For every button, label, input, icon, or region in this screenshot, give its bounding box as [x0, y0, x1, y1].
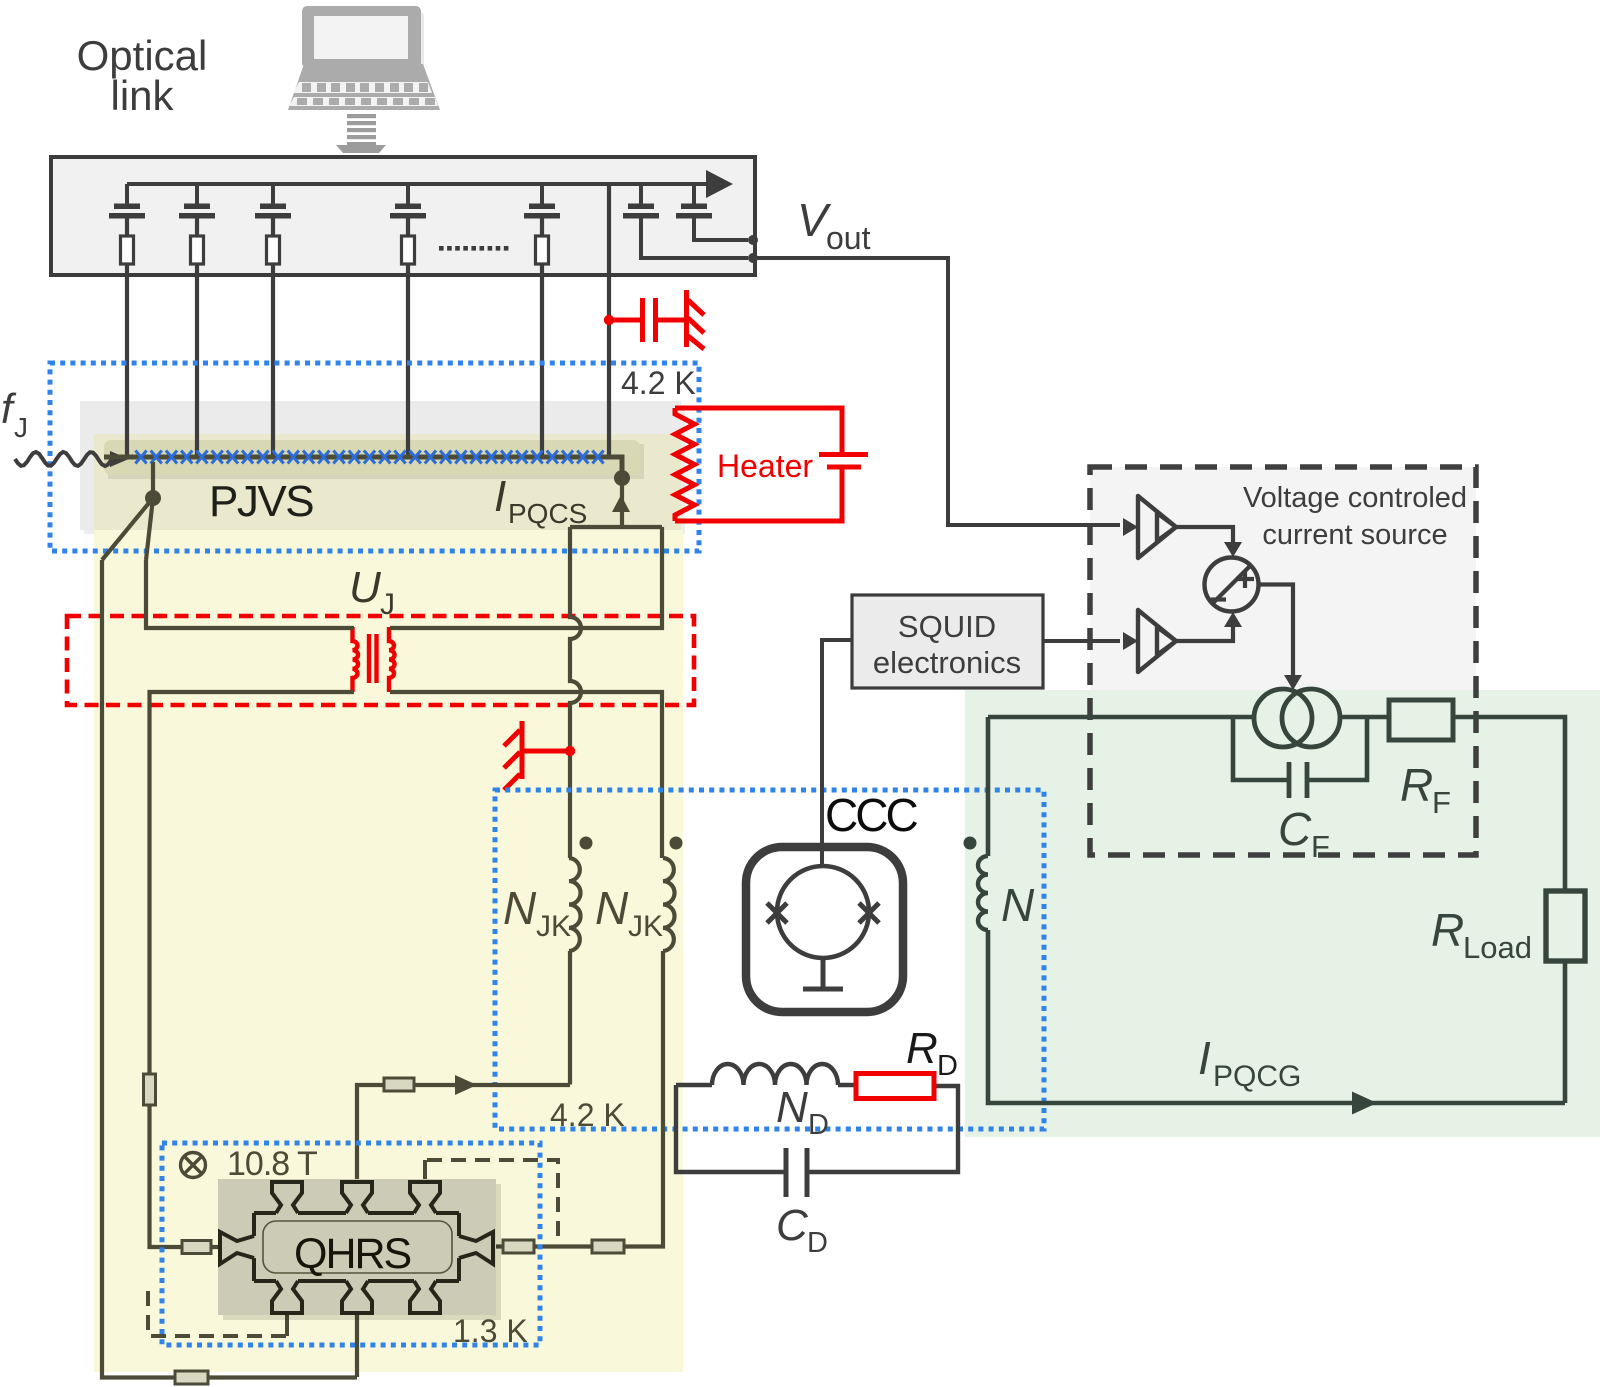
PJVS junction array line	[104, 457, 622, 471]
bus arrow	[706, 170, 733, 198]
svg-text:N: N	[776, 1083, 808, 1132]
svg-text:D: D	[807, 1227, 828, 1259]
heater bottom wire	[675, 469, 842, 521]
N winding wire from current source	[986, 717, 991, 856]
magnetic field symbol	[181, 1153, 206, 1178]
svg-text:F: F	[1432, 785, 1451, 820]
junction X right	[859, 903, 879, 923]
SQUID ground stem	[803, 958, 843, 989]
output cell column 2	[692, 184, 696, 236]
heater top wire	[675, 408, 842, 452]
current source symbol	[1254, 689, 1312, 747]
CCC toroid shield	[746, 847, 903, 1012]
svg-text:D: D	[808, 1109, 829, 1141]
svg-text:CCC: CCC	[825, 789, 917, 841]
svg-text:JK: JK	[536, 910, 571, 943]
svg-text:I: I	[1198, 1032, 1211, 1084]
SQUID to amplifier wire	[1043, 639, 1120, 643]
bias source column x=197	[195, 184, 199, 236]
I_PQCS direction arrow up	[612, 495, 630, 512]
series resistor on bottom return wire	[175, 1371, 208, 1384]
laptop computer icon	[288, 6, 440, 110]
series resistor on left QHRS lead horizontal	[182, 1241, 211, 1254]
PJVS left outer wire to QHRS bottom	[102, 560, 357, 1378]
svg-text:10.8 T: 10.8 T	[227, 1145, 317, 1183]
bias source column x=127	[125, 184, 129, 236]
svg-text:I: I	[494, 472, 506, 521]
4.2 K cryostat dotted box	[50, 363, 699, 551]
ellipsis dots in bias box	[439, 246, 444, 251]
summing junction	[1205, 558, 1259, 612]
svg-text:F: F	[1311, 829, 1330, 864]
R_F resistor	[1389, 700, 1453, 740]
svg-text:out: out	[826, 220, 871, 256]
primary top wire from PJVS left	[146, 560, 354, 628]
output node B	[748, 253, 758, 263]
svg-text:N: N	[595, 882, 629, 934]
SQUID loop circle	[777, 866, 869, 958]
QHRS chip	[218, 1179, 496, 1315]
ground tap red on loop wire	[504, 721, 570, 790]
bias bus wire	[127, 182, 706, 186]
heater resistor coil	[675, 408, 695, 521]
svg-text:D: D	[937, 1050, 958, 1082]
secondary top wire	[390, 527, 662, 628]
svg-text:Heater: Heater	[717, 448, 813, 484]
svg-text:4.2 K: 4.2 K	[621, 365, 696, 401]
summing junction to current source wire	[1259, 585, 1294, 679]
PJVS left terminal node	[102, 462, 153, 560]
1.3 K dotted box	[162, 1143, 540, 1345]
I_PQCG output wire	[988, 930, 1565, 1103]
svg-text:R: R	[906, 1024, 938, 1073]
SQUID electronics box	[852, 595, 1043, 688]
buffer amplifier U2	[1123, 632, 1138, 650]
heater capacitor	[819, 455, 868, 468]
gray band behind PJVS	[84, 405, 685, 534]
output wire left	[988, 715, 1254, 720]
sense wire column x=609	[607, 184, 611, 457]
series resistor on left QHRS lead vertical	[144, 1074, 156, 1105]
svg-text:R: R	[1400, 759, 1433, 811]
svg-text:4.2 K: 4.2 K	[550, 1097, 625, 1133]
filter capacitor plates	[643, 298, 656, 342]
Hall bar inner channel	[263, 1221, 452, 1273]
svg-text:U: U	[349, 563, 381, 612]
svg-text:JK: JK	[628, 910, 663, 943]
output cell column 1	[639, 184, 643, 236]
I_PQCS left loop wire with hops	[570, 527, 581, 858]
transformer primary winding	[353, 627, 359, 692]
svg-text:C: C	[1278, 803, 1312, 855]
secondary bottom wire to right N_JK	[390, 692, 662, 858]
junction X left	[767, 903, 787, 923]
bias electronics box	[51, 157, 755, 275]
svg-text:Voltage controled: Voltage controled	[1243, 482, 1467, 514]
svg-text:N: N	[1001, 879, 1035, 931]
current direction arrow on QHRS lead	[455, 1075, 477, 1095]
f_J microwave wavy line	[15, 452, 111, 466]
primary bottom wire down to QHRS left contact	[150, 692, 355, 1247]
svg-text:Load: Load	[1463, 930, 1532, 965]
amp2 output wire	[1176, 626, 1233, 641]
R_D resistor red	[856, 1074, 934, 1099]
green PQCG region	[1090, 467, 1476, 717]
R_Load resistor	[1546, 891, 1585, 961]
QHRS bottom middle wire	[355, 1313, 359, 1377]
transformer core	[369, 634, 377, 683]
bias source column x=542	[540, 184, 544, 236]
CCC 4.2K dotted box	[495, 790, 1044, 1129]
V_out wire to current source input	[753, 258, 1120, 525]
svg-text:J: J	[14, 412, 28, 443]
svg-text:C: C	[776, 1201, 809, 1250]
heater circuit red	[675, 408, 868, 521]
damping network loop	[676, 1085, 958, 1172]
svg-text:N: N	[503, 882, 537, 934]
left N_JK bottom wire	[568, 951, 572, 1085]
N_JK winding right	[663, 858, 675, 951]
striped down arrow from laptop	[336, 114, 386, 171]
svg-text:QHRS: QHRS	[294, 1230, 411, 1278]
C_D capacitor	[786, 1148, 807, 1197]
shield ground symbol	[684, 290, 689, 347]
C_F feedback capacitor	[1233, 717, 1367, 780]
QHRS sample dashed connections	[425, 1160, 558, 1243]
N_JK winding left	[569, 858, 581, 951]
N winding	[978, 856, 988, 930]
output node A	[748, 235, 758, 245]
Josephson junction X marks	[135, 451, 603, 464]
series resistor on QHRS top lead	[384, 1078, 414, 1091]
bias source column x=408	[406, 184, 410, 236]
svg-text:R: R	[1431, 904, 1464, 956]
N_D inductor	[712, 1064, 838, 1085]
buffer amplifier U1	[1123, 518, 1138, 536]
svg-text:PQCG: PQCG	[1213, 1060, 1301, 1093]
svg-text:link: link	[110, 72, 174, 119]
svg-text:PJVS: PJVS	[209, 477, 313, 526]
I_PQCG direction arrow	[1352, 1092, 1377, 1115]
isolation transformer red dashed box	[67, 616, 694, 705]
transformer secondary winding	[389, 627, 395, 692]
svg-text:PQCS: PQCS	[508, 498, 587, 529]
PJVS right terminal node	[614, 470, 630, 486]
svg-text:current source: current source	[1262, 519, 1447, 551]
series resistor right lead inner	[503, 1240, 534, 1253]
I_PQCS loop top split	[570, 525, 662, 529]
svg-text:electronics: electronics	[873, 645, 1021, 680]
olive PJVS strip	[94, 434, 681, 530]
RC filter to shield ground red	[609, 290, 704, 349]
wire R_F to R_Load	[1453, 717, 1565, 1103]
PJVS chip strip	[108, 444, 644, 479]
output wire right to R_F	[1340, 715, 1389, 720]
right N_JK bottom wire to QHRS right contact	[496, 951, 663, 1247]
Hall bar outline	[220, 1182, 493, 1313]
QHRS chip shadow	[223, 1184, 501, 1320]
SQUID to CCC wire	[822, 640, 852, 868]
yellow cryostat region	[94, 530, 683, 1372]
bias source column x=273	[271, 184, 275, 236]
svg-text:SQUID: SQUID	[898, 609, 996, 644]
voltage controlled current source dashed box	[1090, 467, 1476, 855]
series resistor right lead outer	[592, 1240, 624, 1253]
QHRS to N_JK wire	[357, 1085, 570, 1182]
amp1 output wire	[1176, 527, 1233, 545]
